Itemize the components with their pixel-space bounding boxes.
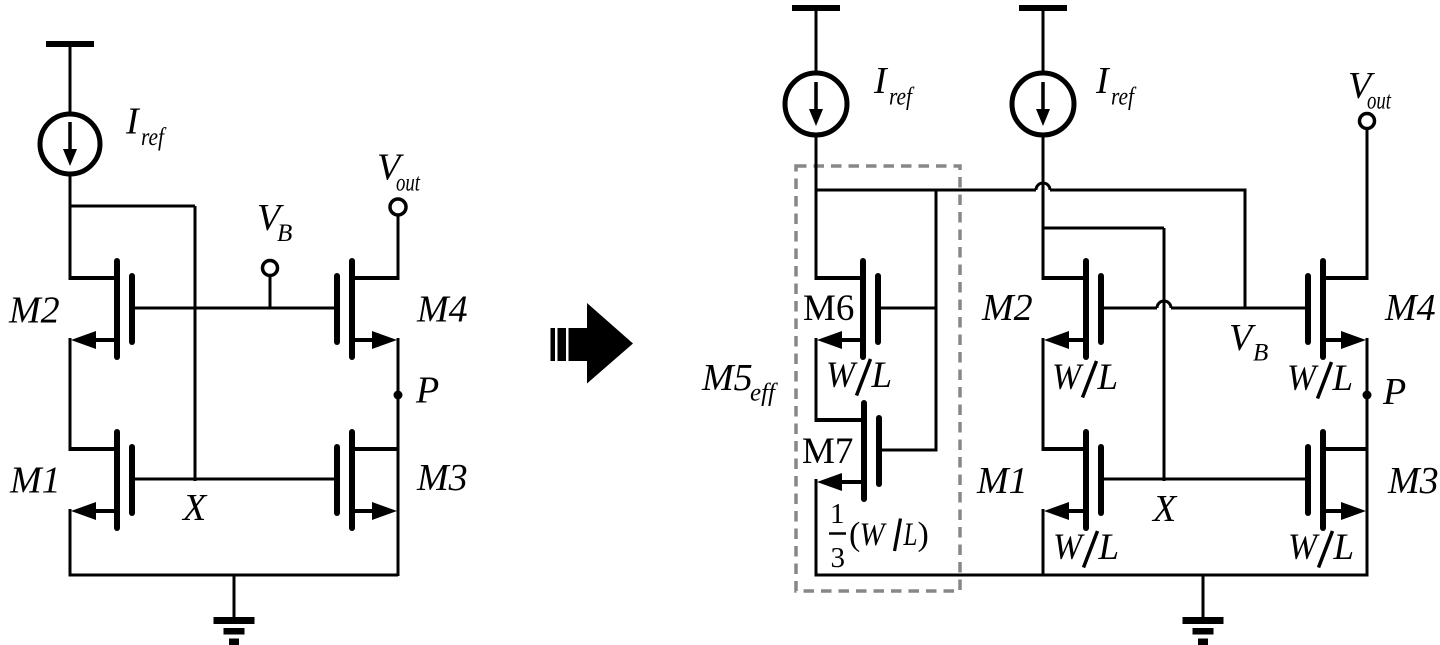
svg-text:I: I [1095,60,1111,102]
svg-text:): ) [918,516,929,553]
svg-text:M6: M6 [803,288,854,329]
svg-text:W: W [1052,357,1084,398]
svg-text:W: W [860,517,887,553]
svg-text:ref: ref [1111,84,1137,111]
svg-text:W: W [1287,358,1319,399]
svg-text:M2: M2 [8,290,60,332]
svg-text:L: L [1098,527,1120,568]
svg-text:M5: M5 [701,357,753,399]
svg-text:out: out [1367,88,1392,115]
svg-text:M3: M3 [1387,460,1439,502]
svg-text:I: I [125,101,141,143]
svg-text:L: L [1332,358,1354,399]
svg-text:W: W [826,355,858,396]
svg-text:ref: ref [889,84,915,111]
svg-text:ref: ref [141,124,167,151]
svg-text:M3: M3 [416,457,468,499]
svg-text:L: L [871,355,893,396]
svg-text:L: L [1333,527,1355,568]
svg-text:I: I [873,60,889,102]
svg-text:W: W [1053,527,1085,568]
svg-text:P: P [415,370,439,412]
svg-text:M7: M7 [802,431,853,472]
svg-text:eff: eff [750,380,778,407]
svg-text:X: X [181,487,208,529]
svg-text:M4: M4 [1384,287,1436,329]
svg-text:V: V [1229,317,1256,359]
svg-text:L: L [1097,357,1119,398]
svg-text:P: P [1382,371,1406,413]
svg-text:W: W [1288,527,1320,568]
svg-text:1: 1 [830,498,845,530]
svg-text:M1: M1 [9,460,61,502]
svg-text:M2: M2 [981,287,1033,329]
svg-text:B: B [277,220,292,247]
svg-text:M4: M4 [416,289,468,331]
svg-text:out: out [396,170,421,197]
svg-text:X: X [1151,488,1178,530]
svg-text:B: B [1253,340,1268,367]
svg-text:M1: M1 [976,460,1028,502]
svg-text:3: 3 [831,542,846,574]
svg-text:L: L [903,517,918,553]
